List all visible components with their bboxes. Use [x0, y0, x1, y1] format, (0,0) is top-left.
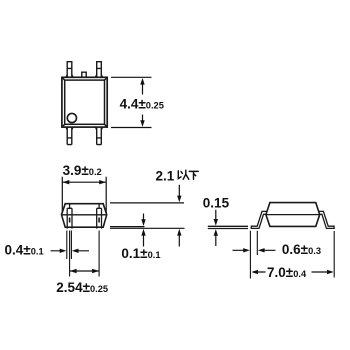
side view right lead: [319, 211, 335, 228]
dimension 0.6 extension lines: [250, 231, 257, 279]
top-right pin: [96, 62, 103, 78]
front view body: [62, 204, 107, 228]
top view body outer: [62, 77, 107, 127]
body bottom extension line: [110, 226, 145, 228]
kanji 下: [189, 171, 198, 179]
dimension 3.9 arrow line: [62, 181, 106, 183]
svg-text:0.15: 0.15: [203, 196, 230, 211]
side view left lead: [251, 211, 266, 228]
svg-text:2.1: 2.1: [156, 168, 175, 183]
dimension 7.0 arrow line: [257, 271, 328, 273]
dimension 3.9 extension lines: [62, 177, 106, 214]
seating plane extension line: [110, 227, 185, 229]
top notch: [82, 72, 86, 77]
dimension 0.4 arrow lines: [51, 250, 89, 252]
kanji 以: [178, 170, 189, 179]
dimension 0.1 arrows: [143, 214, 145, 247]
pin 1 mark circle: [67, 113, 76, 122]
dimension 7.0 extension line right: [333, 231, 335, 278]
top-left pin: [66, 62, 73, 78]
dimension 4.4 arrowheads: [140, 78, 144, 127]
dimension 2.54 arrow line: [70, 270, 100, 272]
dimension 4.4 extension lines: [111, 77, 152, 127]
dimension 3.9 arrowheads: [63, 180, 106, 184]
front view right lead: [97, 204, 102, 229]
front view lead extension lines: [67, 231, 99, 277]
dimension 0.6 arrow lines: [233, 249, 276, 251]
lead thickness 0.15 lines: [208, 226, 248, 228]
dimension 2.1 top extension line: [110, 202, 184, 204]
bottom-right pin: [96, 127, 103, 145]
dimension 2.1 arrows: [178, 185, 180, 247]
side view body: [266, 203, 320, 227]
dimension 4.4 arrow line: [142, 81, 144, 125]
dimension 0.15 arrows: [215, 210, 217, 246]
top view body inner: [62, 77, 107, 127]
bottom-left pin: [66, 127, 73, 145]
front view left lead: [67, 204, 72, 229]
